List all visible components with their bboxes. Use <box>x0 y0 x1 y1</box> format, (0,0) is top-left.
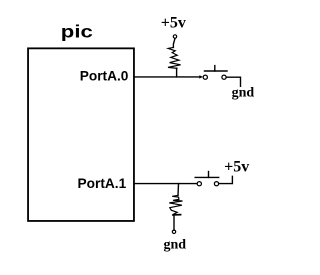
svg-text:PortA.0: PortA.0 <box>80 69 129 84</box>
wire resistor R1 to node A <box>176 68 178 77</box>
wire switch S1 to gnd <box>226 77 240 86</box>
gnd terminal (bottom) <box>172 230 175 233</box>
node B junction to resistor R2 <box>177 184 180 196</box>
svg-text:PortA.1: PortA.1 <box>78 176 127 191</box>
svg-text:+5v: +5v <box>161 15 186 32</box>
switch S1 right contact <box>222 75 226 79</box>
svg-text:gnd: gnd <box>232 86 255 101</box>
switch S1 actuator stem <box>214 66 216 71</box>
switch S2 right contact <box>214 182 218 186</box>
wire terminal to resistor R1 <box>173 38 175 47</box>
wire resistor R2 to gnd terminal <box>173 215 175 230</box>
wire PortA.0 <box>134 76 200 78</box>
svg-text:gnd: gnd <box>164 237 187 252</box>
resistor R2 bottom stroke <box>173 214 181 216</box>
svg-text:pic: pic <box>61 21 93 41</box>
switch S2 actuator stem <box>208 172 210 178</box>
+5v supply terminal (top) <box>173 35 176 38</box>
switch S1 left contact <box>203 75 207 79</box>
wire PortA.1 <box>134 183 197 185</box>
svg-text:+5v: +5v <box>224 159 249 176</box>
arrowhead at switch S1 <box>199 75 203 78</box>
wire switch S2 to +5v <box>219 176 233 183</box>
resistor R2 <box>169 195 182 214</box>
switch S1 actuator bar <box>205 70 228 72</box>
switch S2 actuator bar <box>195 176 219 178</box>
switch S2 left contact <box>197 182 201 186</box>
resistor R1 <box>168 47 181 68</box>
pic block U1 <box>28 48 134 221</box>
